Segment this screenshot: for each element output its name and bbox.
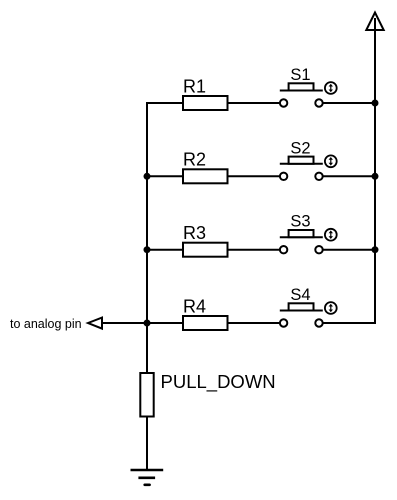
wire row4 right (323, 322, 376, 324)
wire row4 mid (228, 322, 281, 324)
junction right bus row1 (372, 100, 379, 107)
svg-text:R4: R4 (183, 296, 206, 316)
wire row3 right (323, 249, 376, 251)
svg-text:S3: S3 (290, 213, 310, 231)
junction right bus row2 (372, 173, 379, 180)
junction left bus row2 (144, 173, 151, 180)
junction right bus row3 (372, 246, 379, 253)
power supply arrow (VCC) (366, 13, 383, 32)
svg-text:R1: R1 (183, 76, 206, 96)
junction left bus row3 (144, 246, 151, 253)
wire pulldown to ground (146, 417, 148, 471)
resistor R4 (183, 316, 228, 330)
wire row4 left (146, 322, 184, 324)
switch S3 (280, 229, 337, 254)
junction left bus row4 (144, 320, 151, 327)
node to analog pin: arrow (88, 318, 148, 329)
switch S1 (280, 82, 337, 107)
wire row2 right (323, 175, 376, 177)
wire row3 left (146, 249, 184, 251)
wire row1 right (323, 102, 376, 104)
svg-text:R2: R2 (183, 150, 206, 170)
ground (131, 470, 164, 485)
wire left bus (146, 103, 148, 373)
resistor R3 (183, 243, 228, 257)
wire row2 mid (228, 175, 281, 177)
resistor PULL_DOWN (140, 373, 153, 417)
svg-text:R3: R3 (183, 223, 206, 243)
resistor R2 (183, 169, 228, 183)
svg-text:S4: S4 (290, 286, 310, 304)
svg-text:PULL_DOWN: PULL_DOWN (161, 371, 276, 393)
resistor R1 (183, 96, 228, 110)
wire right bus (374, 30, 376, 323)
svg-text:S1: S1 (290, 66, 310, 84)
wire row3 mid (228, 249, 281, 251)
switch S4 (280, 302, 337, 327)
svg-text:S2: S2 (290, 139, 310, 157)
wire row1 left (146, 102, 184, 104)
svg-text:to analog pin: to analog pin (10, 317, 82, 331)
switch S2 (280, 155, 337, 180)
wire row1 mid (228, 102, 281, 104)
wire row2 left (146, 175, 184, 177)
